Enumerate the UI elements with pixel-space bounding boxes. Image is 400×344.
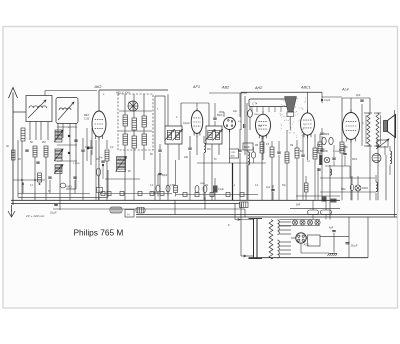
svg-text:1M: 1M bbox=[205, 185, 208, 187]
svg-text:56Ω: 56Ω bbox=[341, 188, 346, 191]
svg-text:5000: 5000 bbox=[324, 134, 330, 136]
svg-text:400Ω: 400Ω bbox=[362, 187, 368, 190]
svg-text:50pF: 50pF bbox=[217, 114, 223, 117]
svg-text:1MΩ: 1MΩ bbox=[254, 114, 259, 116]
svg-text:100: 100 bbox=[85, 146, 90, 149]
svg-text:AB2: AB2 bbox=[221, 86, 229, 90]
svg-text:2V + 120 mA: 2V + 120 mA bbox=[25, 214, 44, 218]
svg-text:C.50: C.50 bbox=[84, 118, 90, 121]
svg-text:10p: 10p bbox=[233, 110, 238, 113]
svg-text:0,5M: 0,5M bbox=[170, 185, 175, 187]
svg-text:4μF: 4μF bbox=[356, 94, 361, 97]
svg-text:F: F bbox=[228, 223, 230, 227]
svg-text:AF3: AF3 bbox=[192, 85, 201, 89]
svg-text:0,1μF: 0,1μF bbox=[324, 99, 331, 102]
svg-text:0,1μF: 0,1μF bbox=[50, 211, 57, 215]
svg-text:2,2MΩ: 2,2MΩ bbox=[73, 163, 80, 165]
svg-text:AL4: AL4 bbox=[341, 88, 349, 92]
svg-text:6MΩ: 6MΩ bbox=[67, 186, 72, 189]
svg-text:AK2: AK2 bbox=[94, 85, 102, 89]
svg-text:0,1μF: 0,1μF bbox=[218, 189, 225, 191]
svg-text:0,1μF: 0,1μF bbox=[183, 121, 190, 125]
svg-text:Philips 765 M: Philips 765 M bbox=[74, 228, 124, 238]
svg-text:ABC1: ABC1 bbox=[300, 86, 311, 90]
svg-text:C 74: C 74 bbox=[252, 103, 258, 106]
svg-text:H: H bbox=[128, 213, 130, 217]
svg-text:AH2: AH2 bbox=[254, 86, 262, 90]
svg-text:8000: 8000 bbox=[352, 159, 358, 161]
svg-text:1μF: 1μF bbox=[266, 186, 271, 189]
svg-text:2M: 2M bbox=[255, 145, 258, 147]
svg-text:1M: 1M bbox=[290, 145, 293, 147]
svg-text:0,5MΩ: 0,5MΩ bbox=[151, 192, 158, 194]
svg-text:COR: COR bbox=[231, 152, 236, 154]
svg-text:50 μF: 50 μF bbox=[351, 245, 358, 248]
svg-text:50pF: 50pF bbox=[339, 150, 345, 152]
svg-text:100: 100 bbox=[184, 156, 189, 159]
svg-text:50pF: 50pF bbox=[162, 175, 168, 177]
svg-text:4μF: 4μF bbox=[329, 227, 334, 230]
svg-text:1M: 1M bbox=[207, 148, 210, 151]
svg-text:5AF: 5AF bbox=[296, 204, 301, 207]
svg-text:2M: 2M bbox=[42, 141, 45, 144]
